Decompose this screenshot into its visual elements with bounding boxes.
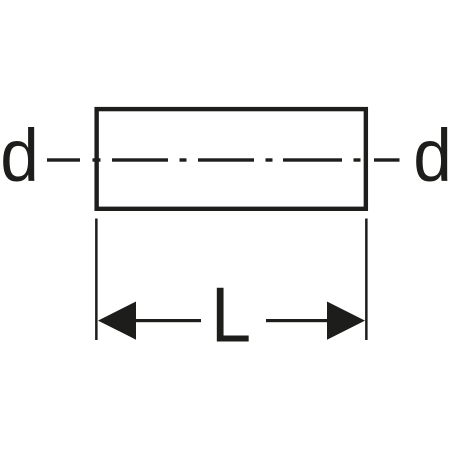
svg-text:d: d [413, 114, 450, 197]
svg-text:d: d [0, 114, 39, 197]
svg-text:L: L [211, 272, 251, 358]
